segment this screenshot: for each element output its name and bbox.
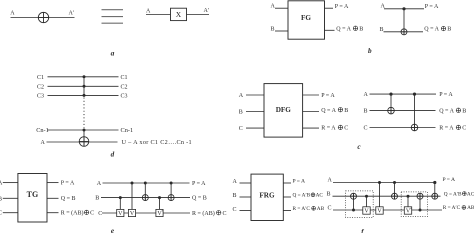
- svg-text:Q = B: Q = B: [61, 196, 76, 202]
- wire B (FRG circuit): [333, 195, 441, 197]
- control dot on A: [402, 7, 405, 10]
- svg-text:B: B: [0, 196, 2, 202]
- svg-text:Cn-1: Cn-1: [36, 127, 49, 134]
- control dot on Cn-1: [83, 129, 86, 132]
- XOR target on B (first CNOT): [142, 195, 148, 201]
- wire A (CnNOT): [47, 141, 118, 143]
- box V1 on C: [117, 209, 124, 216]
- wire B (CNOT circuit): [384, 31, 424, 33]
- control line C to XOR on B (box2 CNOT): [419, 193, 421, 210]
- svg-text:C1: C1: [121, 75, 128, 81]
- control dot on A (last CNOT): [433, 181, 436, 184]
- control dot on A (V2): [378, 181, 381, 184]
- control dot on B (box2 V dagger): [407, 195, 410, 198]
- svg-text:A: A: [271, 4, 276, 10]
- svg-text:P = A: P = A: [425, 4, 439, 10]
- svg-text:B: B: [239, 109, 243, 115]
- wire C (DFG circuit): [370, 127, 436, 129]
- wire FG output P: [325, 7, 334, 9]
- control dot on C3: [83, 94, 86, 97]
- wire A into FRG: [240, 182, 252, 184]
- svg-text:Q = A: Q = A: [439, 108, 454, 114]
- svg-text:B: B: [462, 108, 466, 114]
- svg-text:C: C: [233, 207, 237, 213]
- wire B (DFG circuit): [370, 110, 436, 112]
- control line A to V2: [379, 183, 381, 208]
- svg-text:B: B: [359, 26, 363, 32]
- box V3 (V dagger) on C: [156, 209, 163, 216]
- svg-text:B: B: [447, 27, 451, 33]
- wire A (CNOT circuit): [384, 8, 424, 10]
- control dot on C (box1 CNOT): [352, 209, 355, 212]
- svg-text:A: A: [239, 93, 244, 99]
- svg-text:R = A: R = A: [439, 126, 454, 132]
- svg-text:R = A′C: R = A′C: [293, 206, 311, 212]
- control line B to V3: [159, 198, 161, 210]
- wire B into FRG: [240, 196, 252, 198]
- svg-text:Q = A: Q = A: [336, 26, 351, 32]
- svg-text:V: V: [118, 211, 123, 217]
- control line A to C (DFG circuit): [414, 94, 416, 131]
- svg-text:b: b: [368, 47, 372, 55]
- control line A to V2: [131, 183, 133, 209]
- svg-text:Q = A: Q = A: [424, 27, 439, 33]
- svg-text:Q = A′B: Q = A′B: [293, 193, 311, 199]
- wire DFG output R: [303, 127, 319, 129]
- wire A (TG circuit): [103, 182, 190, 184]
- wire TG output P: [47, 182, 59, 184]
- svg-text:d: d: [111, 150, 115, 158]
- svg-text:P = A: P = A: [61, 180, 75, 186]
- control line B to V1 (box1): [366, 196, 368, 207]
- svg-text:P = A: P = A: [192, 181, 206, 187]
- wire C into FRG: [240, 210, 252, 212]
- wire C into TG: [3, 212, 18, 214]
- svg-text:C1: C1: [37, 75, 44, 81]
- wire B (TG circuit): [101, 197, 190, 199]
- XOR target on B (box1 CNOT): [351, 193, 357, 199]
- svg-text:B: B: [380, 27, 384, 33]
- control line Cn-1 to XOR target: [83, 130, 85, 146]
- svg-text:R = (AB): R = (AB): [192, 210, 215, 217]
- box V1 on C (box1): [363, 207, 370, 214]
- svg-text:B: B: [233, 193, 237, 199]
- wire FG output Q: [325, 29, 335, 31]
- dotted group box 2: [401, 192, 427, 217]
- control line A to B: [403, 9, 405, 35]
- svg-text:C: C: [90, 211, 94, 217]
- wire A into FG: [275, 7, 288, 9]
- wire B into DFG: [246, 111, 264, 113]
- svg-text:R = A′C: R = A′C: [443, 205, 461, 211]
- svg-text:A: A: [328, 177, 333, 183]
- svg-text:B: B: [95, 195, 99, 201]
- XOR target on C (DFG circuit): [411, 124, 418, 131]
- wire C1: [48, 76, 119, 78]
- gate TG (Toffoli gate box): [18, 174, 47, 223]
- svg-text:DFG: DFG: [276, 106, 292, 114]
- wire C into DFG: [246, 127, 264, 129]
- svg-text:FG: FG: [301, 14, 311, 22]
- svg-text:P = A: P = A: [293, 179, 306, 185]
- wire C3: [48, 94, 119, 96]
- wire FRG output R: [283, 210, 291, 212]
- svg-text:A: A: [97, 181, 102, 187]
- svg-text:C: C: [239, 126, 243, 132]
- control dot on A (middle CNOT): [393, 181, 396, 184]
- control dot on B (V3): [158, 196, 161, 199]
- svg-text:C: C: [328, 205, 332, 211]
- wire A into DFG: [246, 94, 264, 96]
- svg-text:C: C: [344, 126, 348, 132]
- XOR target on B (second CNOT): [168, 195, 174, 201]
- control dot on B (V1): [119, 196, 122, 199]
- svg-text:Q = B: Q = B: [192, 196, 207, 202]
- svg-text:C: C: [462, 126, 466, 132]
- svg-text:R = (AB): R = (AB): [61, 210, 84, 217]
- gate DFG (Double Feynman gate box): [264, 84, 303, 138]
- control dot on A (second CNOT): [170, 182, 173, 185]
- control line A to B (DFG circuit): [390, 94, 392, 114]
- svg-text:V: V: [377, 209, 382, 215]
- svg-text:B: B: [364, 108, 368, 114]
- svg-text:C: C: [364, 126, 368, 132]
- svg-text:B: B: [327, 191, 331, 197]
- wire DFG output Q: [303, 111, 319, 113]
- XOR target on B (middle CNOT): [392, 193, 398, 199]
- wire DFG output P: [303, 94, 319, 96]
- svg-text:B: B: [344, 108, 348, 114]
- svg-text:A: A: [146, 8, 151, 14]
- svg-text:V: V: [130, 211, 135, 217]
- svg-text:Q = A: Q = A: [321, 108, 336, 114]
- svg-text:C: C: [223, 211, 227, 217]
- control dot on C (box2 CNOT): [419, 209, 422, 212]
- svg-text:AC: AC: [316, 193, 324, 199]
- wire A into TG: [3, 182, 18, 184]
- svg-text:C3: C3: [121, 93, 128, 99]
- XOR target on A (CnNOT): [79, 137, 89, 147]
- box V2 on C: [376, 207, 383, 214]
- svg-text:A′: A′: [204, 8, 210, 14]
- svg-text:P = A: P = A: [321, 93, 335, 99]
- svg-text:P = A: P = A: [335, 4, 349, 10]
- svg-text:C2: C2: [121, 84, 128, 90]
- wire FRG output Q: [283, 196, 291, 198]
- control line A to XOR on B (first CNOT): [144, 183, 146, 201]
- control dot on C1: [83, 75, 86, 78]
- equivalence symbol (triple bar): [102, 10, 124, 24]
- control dot on A (V2): [131, 182, 134, 185]
- svg-text:Cn-1: Cn-1: [121, 127, 134, 134]
- svg-text:A′: A′: [69, 10, 75, 16]
- wire C (FRG circuit): [333, 209, 442, 211]
- wire Cn-1: [48, 129, 119, 131]
- XOR target on B (DFG circuit): [388, 107, 395, 114]
- wire X box to A': [187, 14, 210, 16]
- svg-text:Q = A′B: Q = A′B: [444, 191, 462, 197]
- box V2 on C: [128, 209, 135, 216]
- wire A (DFG circuit): [370, 93, 437, 95]
- svg-text:A: A: [233, 179, 238, 185]
- dotted group box 1: [346, 191, 374, 218]
- XOR target on B (box2 CNOT): [417, 193, 423, 199]
- svg-text:R = A: R = A: [321, 126, 336, 132]
- control dot on A (second): [413, 93, 416, 96]
- wire B into FG: [275, 30, 288, 32]
- wire FRG output P: [283, 182, 291, 184]
- XOR target symbol (NOT gate): [38, 12, 48, 22]
- box V3 (V dagger) on C (box2): [404, 207, 411, 214]
- svg-text:B: B: [271, 27, 275, 33]
- wire A (FRG circuit): [333, 182, 435, 184]
- control dot on B (box1 V): [365, 195, 368, 198]
- wire C2: [48, 85, 119, 87]
- svg-text:AB: AB: [317, 206, 325, 212]
- svg-text:C: C: [98, 211, 102, 217]
- svg-text:C3: C3: [37, 93, 44, 99]
- svg-text:C2: C2: [37, 84, 44, 90]
- control dot on C2: [83, 85, 86, 88]
- control dot on A (first CNOT): [144, 182, 147, 185]
- XOR target on B: [401, 29, 407, 35]
- gate X (NOT box): [171, 8, 187, 20]
- wire B into TG: [3, 197, 18, 199]
- svg-text:C: C: [0, 211, 2, 217]
- svg-text:TG: TG: [27, 190, 39, 199]
- svg-text:P = A: P = A: [443, 177, 456, 183]
- svg-text:AB: AB: [467, 205, 474, 211]
- svg-text:FRG: FRG: [259, 191, 275, 199]
- control line C to XOR on B (box1 CNOT): [353, 193, 355, 210]
- svg-text:a: a: [111, 48, 115, 57]
- svg-text:U – A xor C1 C2….Cn -1: U – A xor C1 C2….Cn -1: [122, 139, 192, 146]
- svg-text:A: A: [10, 10, 15, 16]
- svg-text:A: A: [364, 92, 369, 98]
- control line A to XOR on B (last CNOT): [434, 183, 436, 200]
- control line dotted C3 to Cn-1: [83, 98, 85, 129]
- wire A into X box: [146, 14, 171, 16]
- wire TG output Q: [47, 197, 59, 199]
- svg-text:A: A: [41, 140, 46, 146]
- control line A to XOR on B (middle CNOT): [394, 183, 396, 200]
- control line C1-C3 (solid): [83, 77, 85, 96]
- wire A to A' (NOT gate): [11, 17, 75, 19]
- XOR target on B (last CNOT): [432, 193, 438, 199]
- control dot on A (first): [389, 93, 392, 96]
- gate FG (Feynman gate box): [288, 1, 325, 39]
- control line B to V1: [119, 198, 121, 210]
- svg-text:P = A: P = A: [439, 92, 453, 98]
- svg-text:V: V: [364, 209, 369, 215]
- svg-text:AC: AC: [467, 191, 474, 197]
- wire TG output R: [47, 212, 59, 214]
- gate FRG (Fredkin gate box): [251, 174, 283, 220]
- wire C (TG circuit): [102, 212, 190, 214]
- svg-text:X: X: [176, 10, 182, 19]
- control line A to XOR on B (second CNOT): [170, 183, 172, 201]
- control line B to V3 (box2): [407, 196, 409, 207]
